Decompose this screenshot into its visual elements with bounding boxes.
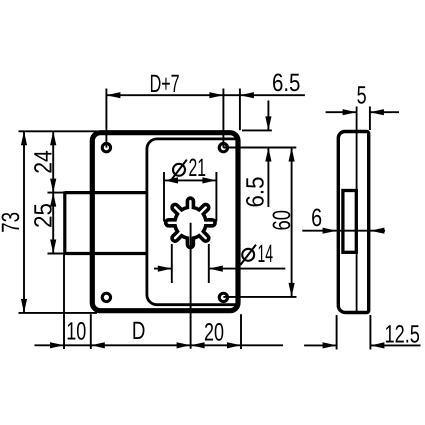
svg-text:D: D xyxy=(132,317,146,345)
svg-text:5: 5 xyxy=(357,82,367,110)
svg-text:73: 73 xyxy=(0,212,25,233)
lock plate body outline (front view) xyxy=(92,133,238,311)
screw hole bottom-right xyxy=(219,293,227,301)
svg-text:6.5: 6.5 xyxy=(272,69,301,97)
screw hole top-left xyxy=(102,143,110,151)
screw hole bottom-left xyxy=(102,293,110,301)
vertical centerline through spindle hole xyxy=(190,223,192,349)
latch tab outline (left protrusion) xyxy=(65,191,147,194)
dimension 5 (plate thickness) xyxy=(326,111,357,113)
side view body outline xyxy=(338,132,368,313)
svg-text:D+7: D+7 xyxy=(150,70,180,98)
svg-text:20: 20 xyxy=(204,319,224,347)
svg-text:6: 6 xyxy=(311,204,322,232)
dimension 73 (overall height) xyxy=(23,131,25,313)
svg-text:6.5: 6.5 xyxy=(242,177,270,208)
raised case outline (front view) xyxy=(147,139,237,305)
dimension D+7 (screw hole spacing) xyxy=(106,94,223,96)
dim 6 mid line (under side view) xyxy=(302,230,385,232)
dimension 25 (tab height) xyxy=(52,193,54,254)
svg-text:60: 60 xyxy=(268,210,296,231)
side view hub boss rectangle xyxy=(343,191,356,253)
screw hole top-right xyxy=(219,143,227,151)
svg-text:21: 21 xyxy=(189,154,207,182)
dimension 6.5 (top edge to hole centre) xyxy=(267,101,269,131)
dimension diameter 14 (star inner) xyxy=(171,244,173,283)
dimension 12.5 (overall depth) xyxy=(304,344,337,346)
dimension diameter 21 (star outer) xyxy=(163,172,165,222)
star-shaped spindle hole xyxy=(166,198,215,247)
svg-text:10: 10 xyxy=(66,318,86,346)
dimension 6.5 (hole to right edge) xyxy=(223,94,305,96)
svg-text:14: 14 xyxy=(258,240,274,268)
side view plate/case junction line xyxy=(356,107,358,312)
svg-text:24: 24 xyxy=(30,150,58,174)
svg-text:12.5: 12.5 xyxy=(384,321,420,349)
dimension 60 (hole vertical spacing) xyxy=(291,148,293,297)
svg-text:25: 25 xyxy=(30,203,58,228)
dimension 24 (top edge to tab) xyxy=(52,131,54,192)
dimensions 10 / D / 20 (bottom) xyxy=(35,344,284,346)
